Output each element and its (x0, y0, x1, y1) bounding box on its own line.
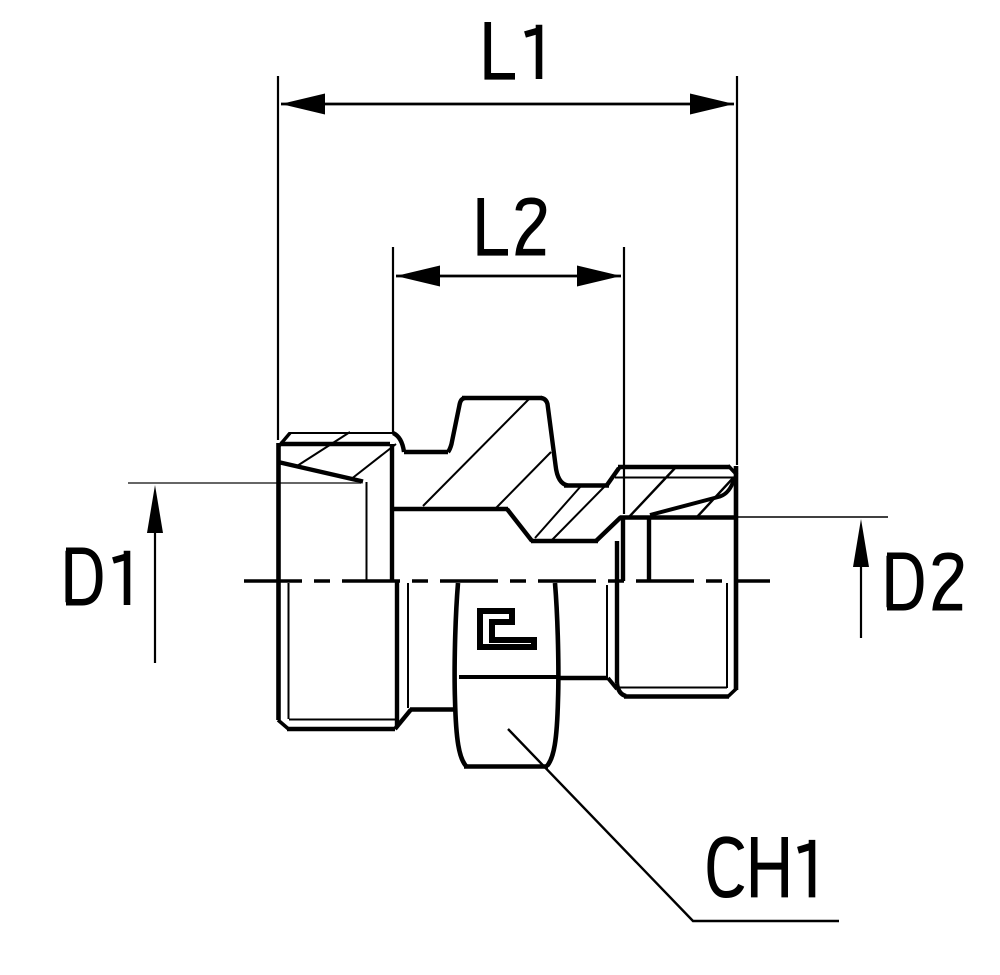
arrowhead L2 right (577, 266, 621, 287)
dimension L2 extension line left (392, 247, 394, 434)
arrowhead L2 left (396, 266, 440, 287)
hatch right port 2 (697, 477, 734, 517)
hex bottom edge (464, 764, 548, 769)
right thread left wall / bore end face (615, 541, 619, 683)
right port thread root line (thin, top) (615, 477, 733, 479)
dimension D1 reference line (128, 482, 361, 484)
hatch middle valley 1 (535, 486, 581, 538)
right thread left chamfer curve (bottom) (617, 683, 626, 696)
throat chamfer right (596, 517, 621, 541)
hatch right port 1 (629, 467, 676, 517)
inner vertical at x=623 (621, 518, 625, 581)
hex left silhouette arc (455, 583, 466, 766)
dimension L1 line (281, 103, 734, 106)
left port root edge vertical (thin) (288, 583, 290, 719)
right port thread root line (bottom, thin) (619, 687, 727, 689)
leader line CH1 (508, 729, 839, 921)
right port thread crest line (bottom) (624, 694, 729, 698)
hatch hex long (423, 398, 530, 506)
left port thread crest line (thin, top) (289, 432, 393, 434)
hex top edge (462, 396, 542, 400)
neck floor right of hex (bottom) (557, 676, 608, 680)
right port root edge vertical (bottom, thin) (726, 583, 728, 688)
hatch hex short (496, 452, 551, 508)
arrowhead L1 right (690, 94, 734, 115)
label L2 (481, 198, 545, 252)
valley floor right of hex (top) (564, 483, 609, 487)
arrowhead L1 left (281, 94, 325, 115)
shoulder line at D2 level inside body (620, 515, 737, 519)
hatch left port 2 (350, 444, 396, 480)
right port top chamfer (728, 466, 737, 476)
step chamfer up to right thread (607, 468, 619, 485)
inner vertical at x=649 (647, 518, 651, 581)
hex right face (top section) (541, 398, 568, 486)
label D1 (66, 551, 127, 605)
label L1 (488, 22, 539, 79)
dimension L1 extension line right (736, 76, 738, 465)
dimension L1 extension line left (277, 76, 279, 440)
right neck edge vertical (bottom, thin x=607) (606, 585, 608, 676)
left port top chamfer (279, 433, 290, 446)
right port thread crest line (thick, top) (618, 465, 729, 469)
hatch middle valley 2 (551, 484, 607, 541)
label CH1 (711, 837, 812, 897)
left bore floor (393, 507, 508, 511)
left port face (male thread end D1) (276, 443, 281, 720)
internal cone seat of left port (24 deg) (278, 462, 363, 482)
right port bottom chamfer (728, 689, 737, 697)
dimension D1 arrow (154, 530, 156, 663)
label D2 (887, 556, 962, 608)
brand logo square spiral on hex (480, 611, 534, 647)
dimension D2 arrow (860, 564, 862, 638)
left port thread root line (thick, top) (280, 442, 390, 446)
neck chamfer to right thread (bottom) (608, 678, 617, 689)
hex chamfer face line (459, 675, 557, 679)
thread end vertical wall (top, x=392) (390, 444, 394, 581)
throat bore floor (531, 539, 598, 543)
dimension L2 extension line right (623, 247, 625, 514)
hatch left port 1 (297, 432, 350, 466)
neck floor left of hex (bottom) (410, 707, 455, 711)
left thread runout (bottom) (395, 710, 411, 730)
left port thread crest line (bottom) (287, 727, 395, 731)
cone end vertical (thin, x=367) (366, 482, 368, 581)
left port thread root line (bottom, thin) (289, 719, 395, 721)
hex left face (top section) (448, 398, 465, 452)
centerline (dashed axis) (244, 579, 770, 583)
bore cone between floor and throat (507, 509, 532, 541)
right port face vertical (734, 466, 739, 690)
groove floor left of hex (top) (404, 450, 448, 454)
left port bottom chamfer (278, 720, 289, 729)
left thread end curve into groove (393, 433, 404, 452)
thread end vertical (bottom, x=397) (395, 581, 399, 726)
neck edge vertical (bottom, thin x=408) (407, 583, 409, 708)
dimension L2 line (396, 275, 621, 278)
right thread runout slant (top) (650, 479, 734, 515)
dimension D2 reference line (737, 516, 888, 518)
hex right silhouette arc (547, 583, 558, 766)
